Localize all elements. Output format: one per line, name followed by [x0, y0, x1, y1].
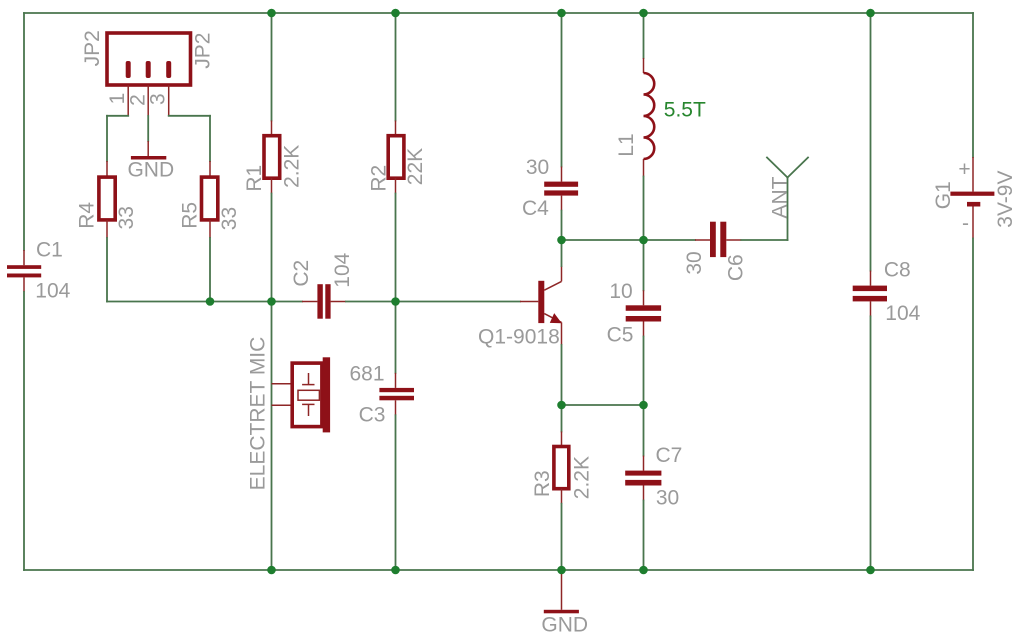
transistor Q1 emitter arrow: [550, 313, 562, 323]
transistor Q1 base bar: [538, 281, 544, 323]
wire R1 bottom lead: [271, 178, 273, 193]
wire L1 top: [643, 13, 645, 58]
wire L1 top lead: [643, 58, 645, 73]
wire R1 top: [271, 13, 273, 121]
svg-text:2.2K: 2.2K: [570, 456, 593, 499]
wire C6 right lead: [726, 239, 741, 241]
capacitor C8: [853, 286, 887, 302]
wire R1 top lead: [271, 121, 273, 136]
wire C5 top: [643, 240, 645, 290]
svg-text:R1: R1: [243, 165, 266, 192]
ground GND top: [131, 156, 166, 160]
JP2 pin 2 pad: [146, 61, 151, 78]
svg-text:L1: L1: [615, 133, 638, 156]
wire C1 top lead: [23, 250, 25, 265]
electret mic leads: [272, 383, 293, 385]
wire C4 bottom lead: [561, 196, 563, 211]
wire R5 to mid rail: [209, 238, 211, 302]
wire C7 top lead: [643, 456, 645, 471]
wire C3 top lead: [395, 373, 397, 388]
svg-text:C7: C7: [655, 444, 682, 467]
wire JP2 pin2 lead: [147, 85, 149, 116]
svg-text:GND: GND: [541, 614, 588, 636]
wire Q1 collector to node: [561, 240, 563, 266]
svg-text:R2: R2: [368, 165, 391, 192]
wire C4 to node: [561, 211, 563, 240]
connector JP2: [107, 33, 191, 85]
wire pin3 jog horizontal: [169, 115, 210, 117]
svg-text:33: 33: [115, 206, 138, 229]
wire C8 top lead: [870, 271, 872, 286]
svg-text:R5: R5: [178, 202, 201, 229]
svg-text:3V-9V: 3V-9V: [994, 170, 1017, 227]
wire R2 top lead: [395, 121, 397, 136]
svg-text:30: 30: [526, 156, 549, 179]
wire C4 top: [561, 13, 563, 167]
wire C6 left: [644, 239, 696, 241]
wire R4 top lead: [106, 161, 108, 177]
svg-text:C1: C1: [36, 239, 63, 262]
ground GND bottom: [544, 610, 579, 614]
wire Q1 emitter lead: [561, 322, 563, 345]
wire R4 bottom lead: [106, 220, 108, 238]
wire pin1 jog horizontal: [107, 115, 128, 117]
wire R2 top: [395, 13, 397, 121]
wire C7 top: [643, 405, 645, 456]
svg-text:30: 30: [683, 251, 706, 274]
node dots mid rail: [206, 297, 400, 306]
svg-text:5.5T: 5.5T: [664, 99, 706, 122]
svg-text:3: 3: [147, 93, 170, 105]
svg-text:C5: C5: [607, 324, 634, 347]
JP2 pin 3 pad: [166, 61, 171, 78]
wire C3 to bottom rail: [395, 415, 397, 570]
svg-text:R3: R3: [531, 470, 554, 497]
electret mic body: [292, 363, 322, 427]
resistor R5: [202, 177, 218, 220]
JP2 pin 1 pad: [126, 61, 131, 78]
wire pin3 to R5: [209, 116, 211, 161]
wire bottom rail: [24, 569, 973, 571]
capacitor C4: [544, 182, 578, 196]
wire left border lower: [23, 292, 25, 570]
antenna ANT: [767, 158, 808, 178]
wire JP2 pin1 lead: [127, 85, 129, 116]
capacitor C6: [710, 222, 726, 257]
node dots bottom rail: [267, 566, 875, 575]
capacitor C3: [379, 388, 414, 400]
wire mid rail right: [346, 301, 520, 303]
wire R3 to bottom rail: [561, 504, 563, 570]
wire L1 bottom lead: [643, 159, 645, 177]
resistor R1: [264, 136, 280, 179]
wire R2 bottom lead: [395, 178, 397, 193]
node dots y405: [557, 401, 648, 410]
svg-text:33: 33: [218, 207, 241, 230]
wire JP2 pin3 lead: [168, 85, 170, 116]
svg-text:104: 104: [885, 302, 920, 325]
wire C8 to bottom rail: [870, 316, 872, 570]
wire mid rail left: [107, 301, 302, 303]
electret mic internal fet: [298, 373, 319, 416]
wire Q1 base lead: [520, 301, 538, 303]
wire ground lead: [147, 141, 149, 156]
inductor L1: [644, 73, 655, 159]
wire R3 top: [561, 405, 563, 432]
svg-text:30: 30: [656, 486, 679, 509]
wire antenna stem: [787, 178, 789, 241]
svg-text:C8: C8: [884, 259, 911, 282]
wire C7 bottom lead: [643, 486, 645, 501]
wire R1 to bottom rail: [271, 194, 273, 571]
wire Q1 collector lead: [561, 266, 563, 281]
svg-text:Q1-9018: Q1-9018: [478, 326, 560, 349]
wire R5 bottom lead: [209, 220, 211, 238]
transistor Q1 collector diagonal: [544, 281, 561, 290]
svg-text:JP2: JP2: [192, 33, 215, 69]
svg-text:681: 681: [349, 363, 384, 386]
resistor R3: [554, 447, 569, 489]
svg-text:ANT: ANT: [769, 176, 792, 218]
wire Q1 emitter to node: [561, 345, 563, 405]
wire C2 left lead: [302, 301, 317, 303]
svg-text:GND: GND: [127, 159, 174, 182]
wire C8 top: [870, 13, 872, 271]
wire C6 left lead: [695, 239, 710, 241]
wire C8 bottom lead: [870, 301, 872, 316]
capacitor C5: [626, 305, 661, 321]
wire node row y405: [562, 404, 644, 406]
svg-text:2.2K: 2.2K: [281, 145, 304, 188]
svg-text:C3: C3: [359, 404, 386, 427]
svg-text:22K: 22K: [404, 148, 427, 185]
wire G1 bottom lead: [972, 207, 974, 239]
wire pin2 to ground: [147, 116, 149, 141]
svg-text:G1: G1: [932, 181, 955, 209]
wire G1 top lead: [972, 157, 974, 192]
wire R3 top lead: [561, 432, 563, 447]
capacitor C2: [317, 284, 330, 319]
wire C7 to bottom rail: [643, 501, 645, 571]
resistor R4: [99, 177, 115, 220]
wire C3 bottom lead: [395, 400, 397, 415]
svg-text:C2: C2: [290, 260, 313, 287]
battery G1: [950, 192, 994, 207]
svg-text:-: -: [962, 212, 969, 235]
resistor R2: [388, 136, 404, 179]
wire left border upper: [23, 13, 25, 250]
svg-text:C4: C4: [522, 197, 549, 220]
wire C1 bottom lead: [23, 277, 25, 292]
capacitor C7: [625, 471, 661, 486]
wire C5 top lead: [643, 290, 645, 305]
wire R2 to C3: [395, 194, 397, 373]
svg-text:10: 10: [609, 280, 632, 303]
svg-text:R4: R4: [75, 202, 98, 229]
svg-text:+: +: [958, 158, 970, 181]
wire C5 bottom lead: [643, 322, 645, 337]
wire node row y240: [562, 239, 644, 241]
wire right border lower: [972, 239, 974, 571]
wire C2 right lead: [331, 301, 346, 303]
wire R5 top lead: [209, 161, 211, 177]
node dots y240: [557, 236, 648, 245]
svg-text:ELECTRET MIC: ELECTRET MIC: [247, 337, 270, 491]
svg-text:C6: C6: [725, 254, 748, 281]
electret mic diaphragm bar: [323, 357, 330, 432]
wire C5 to node: [643, 337, 645, 406]
wire R4 to mid rail: [106, 238, 108, 302]
wire right border upper: [972, 13, 974, 157]
svg-text:104: 104: [35, 279, 70, 302]
transistor Q1 emitter diagonal: [544, 314, 561, 323]
wire C4 top lead: [561, 167, 563, 182]
wire L1 to node: [643, 177, 645, 241]
wire pin1 to R4: [106, 116, 108, 161]
node dots top rail: [267, 9, 875, 18]
wire R3 bottom lead: [561, 489, 563, 504]
wire top rail: [24, 12, 973, 14]
svg-text:JP2: JP2: [81, 30, 104, 66]
capacitor C1: [7, 265, 41, 277]
wire C6 to antenna: [741, 239, 787, 241]
wire bottom ground lead: [561, 570, 563, 610]
svg-text:104: 104: [331, 252, 354, 287]
